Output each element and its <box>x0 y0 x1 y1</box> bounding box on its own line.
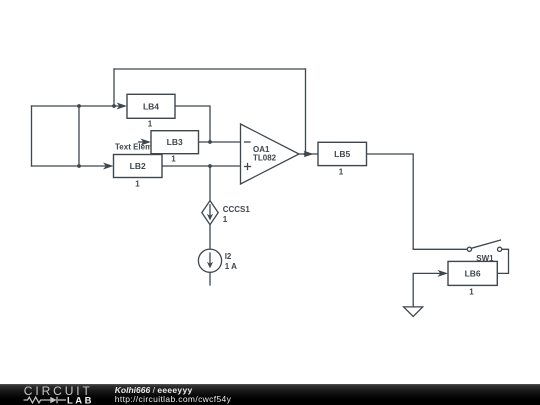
svg-text:1: 1 <box>339 167 344 176</box>
wire middle loop vertical <box>78 106 80 166</box>
current source I2 <box>198 249 237 272</box>
svg-text:1: 1 <box>148 119 153 128</box>
junction node at loop bottom <box>77 164 81 168</box>
arrowhead into LB5 <box>304 151 314 158</box>
svg-text:LB2: LB2 <box>130 161 146 171</box>
arrowhead into LB2 <box>103 163 114 170</box>
svg-text:LAB: LAB <box>67 395 94 405</box>
wire switch right lead <box>498 249 509 273</box>
wire LB3 input stub <box>139 141 145 143</box>
junction node LB4/LB3 output <box>208 140 212 144</box>
CircuitLab logo <box>0 384 110 405</box>
junction node at loop top <box>77 104 81 108</box>
svg-text:LB3: LB3 <box>167 137 183 147</box>
svg-text:CCCS1: CCCS1 <box>223 205 251 214</box>
footer url <box>115 394 231 404</box>
footer bar <box>0 384 540 405</box>
svg-text:1: 1 <box>223 215 228 224</box>
arrowhead into LB4 <box>117 103 128 110</box>
laplace block LB6 <box>448 261 497 296</box>
svg-text:1: 1 <box>469 287 474 296</box>
svg-text:I2: I2 <box>225 252 232 261</box>
junction node LB2 output / CCCS1 <box>208 164 212 168</box>
wire LB5 output to switch <box>367 154 414 249</box>
wire left loop vertical <box>31 106 33 166</box>
footer author/title <box>115 386 193 395</box>
wire I2 bottom lead <box>209 272 211 285</box>
wire feedback left vertical <box>113 69 115 106</box>
junction node feedback to LB4 input <box>112 104 116 108</box>
svg-text:LB6: LB6 <box>465 268 481 278</box>
svg-text:1: 1 <box>171 155 176 164</box>
svg-text:LB5: LB5 <box>334 149 350 159</box>
svg-text:1: 1 <box>135 180 140 189</box>
wire CCCS1 to I2 <box>209 225 211 250</box>
wire LB3 output <box>199 141 241 143</box>
laplace block LB3 <box>151 131 199 164</box>
arrowhead into LB3 <box>141 139 152 146</box>
switch SW1 <box>467 240 501 263</box>
laplace block LB5 <box>318 142 367 176</box>
svg-text:1 A: 1 A <box>225 262 237 271</box>
junction node op-amp output / feedback <box>304 152 308 156</box>
wire LB2 output <box>162 165 241 167</box>
wire LB4 input <box>32 105 121 107</box>
current-controlled current source CCCS1 <box>202 201 251 225</box>
wire switch left lead <box>413 248 467 250</box>
op-amp OA1 TL082 <box>241 124 300 184</box>
wire top feedback horizontal <box>114 68 306 70</box>
wire LB6 input from ground <box>413 273 441 307</box>
wire LB2 input <box>32 165 107 167</box>
ground <box>404 307 423 317</box>
wire CCCS1 top lead <box>209 166 211 201</box>
wire LB4 output to node <box>175 106 210 142</box>
wire feedback right vertical <box>305 69 307 154</box>
svg-text:TL082: TL082 <box>253 154 277 163</box>
laplace block LB2 <box>114 155 163 189</box>
wire op-amp output <box>299 153 318 155</box>
arrowhead into LB6 <box>438 270 449 277</box>
svg-text:LB4: LB4 <box>143 101 159 111</box>
laplace block LB4 <box>127 94 175 128</box>
